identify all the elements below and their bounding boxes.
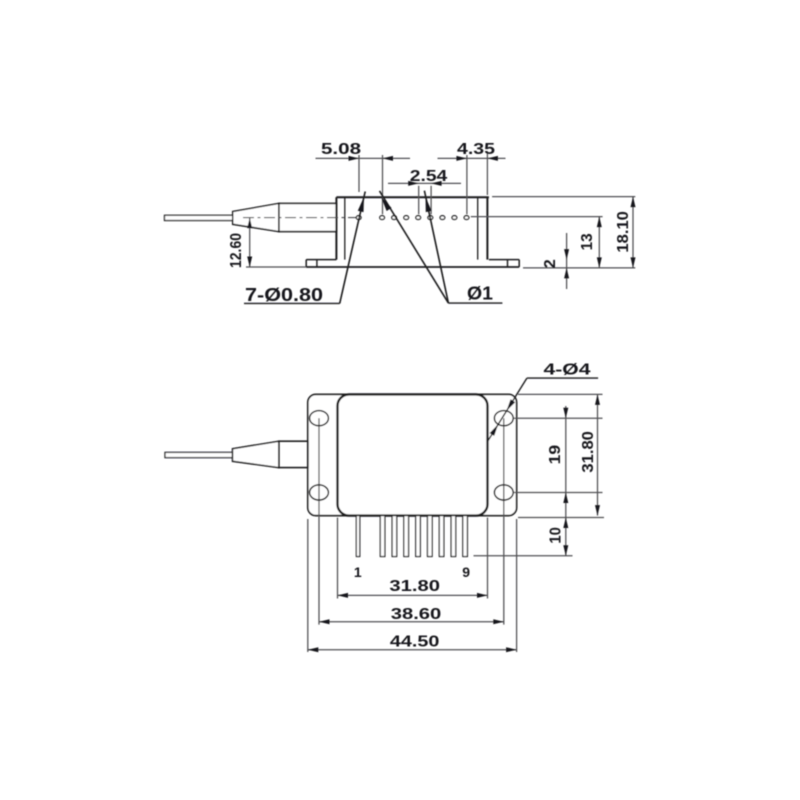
svg-text:7-Ø0.80: 7-Ø0.80 (245, 285, 323, 305)
extension line pin tips (474, 555, 573, 557)
fiber boot taper (side view) (233, 203, 279, 231)
package body top edge (side view) (336, 196, 489, 198)
centerline (dash-dot) (243, 217, 357, 219)
svg-text:18.10: 18.10 (615, 211, 632, 253)
svg-text:12.60: 12.60 (228, 233, 245, 268)
dimension 31.80 (package height) (580, 394, 600, 515)
flange right end (518, 260, 520, 267)
flange right ear top edge (489, 259, 519, 261)
extension line body left edge (337, 518, 339, 599)
snout cylinder (side view) (279, 203, 337, 231)
fiber pigtail (plan view) (165, 452, 233, 457)
flange left end (305, 260, 307, 267)
fiber boot taper (plan view) (233, 441, 279, 467)
label 7-dia-0.80 with leader arrow (244, 192, 365, 306)
svg-text:4.35: 4.35 (457, 141, 495, 158)
svg-text:13: 13 (579, 233, 596, 250)
package body outline (plan view) (338, 394, 488, 515)
pins 1-9 (plan view) (356, 516, 467, 557)
mounting hole top-left (310, 411, 329, 426)
extension line flange left edge (307, 519, 309, 652)
svg-text:Ø1: Ø1 (467, 284, 493, 304)
dimension 19 (hole spacing) (547, 406, 568, 556)
dimension 5.08 (316, 141, 411, 214)
snout cylinder (plan view) (279, 441, 308, 467)
svg-text:44.50: 44.50 (390, 633, 440, 650)
flange left hole mark (316, 260, 318, 267)
body left wall outer line (335, 197, 337, 259)
svg-text:19: 19 (547, 445, 564, 465)
dimension 10 (pin length) (548, 518, 569, 556)
svg-text:38.60: 38.60 (391, 606, 442, 623)
dimension 13 (471, 217, 603, 268)
label 4-dia-4 with leader arrows (488, 362, 598, 441)
dimension 2 (flange thickness) (542, 233, 569, 289)
extension line flange top edge (518, 393, 603, 395)
flange left ear top edge (306, 259, 336, 261)
flange outline (plan view) (308, 394, 517, 515)
dimension 12.60 (228, 218, 306, 268)
fiber pigtail (side view) (165, 215, 233, 220)
body right wall inner line (477, 197, 479, 259)
extension line flange right edge (516, 519, 518, 652)
mounting hole bottom-left (310, 485, 329, 500)
dimension 44.50 (flange width) (308, 633, 517, 652)
mounting hole extension line left (318, 418, 320, 624)
svg-text:31.80: 31.80 (580, 431, 597, 473)
svg-text:5.08: 5.08 (321, 141, 361, 158)
svg-text:9: 9 (462, 564, 470, 580)
mounting hole extension line right (503, 418, 505, 624)
dimension 18.10 (492, 197, 635, 268)
dimension 31.80 (body width) (338, 578, 488, 598)
label dia-1 with two leader arrows (380, 191, 503, 304)
body left wall inner line (344, 197, 346, 259)
svg-text:2.54: 2.54 (410, 168, 448, 185)
svg-text:10: 10 (548, 527, 565, 544)
extension line flange bottom edge (518, 517, 604, 519)
svg-text:31.80: 31.80 (389, 578, 440, 595)
flange bottom edge (306, 266, 519, 268)
extension line body right edge (487, 518, 489, 599)
svg-text:4-Ø4: 4-Ø4 (544, 362, 591, 379)
dimension 2.54 (388, 168, 461, 214)
svg-text:1: 1 (354, 564, 362, 580)
dimension 38.60 (hole spacing) (319, 606, 504, 624)
pin feedthrough holes row (9 dots) (356, 216, 469, 220)
extension line top hole row (513, 417, 602, 419)
dimension 4.35 (438, 141, 506, 214)
extension line bottom hole row (513, 492, 602, 494)
mounting hole top-right (494, 411, 513, 426)
svg-text:2: 2 (542, 259, 559, 268)
flange right hole mark (507, 260, 509, 267)
mounting hole bottom-right (494, 485, 513, 500)
body right wall outer line (486, 197, 488, 259)
